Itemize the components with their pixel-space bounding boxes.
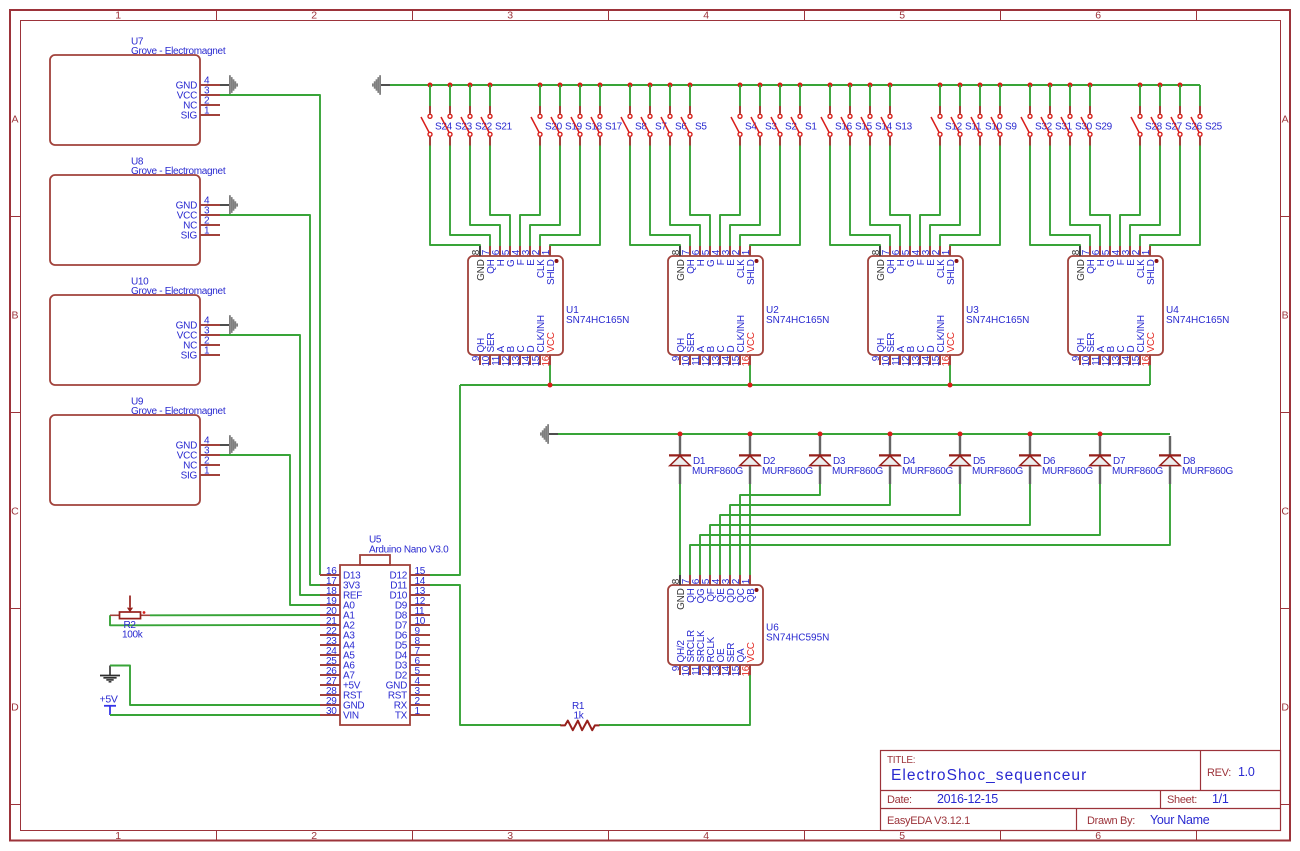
wire S30 to U4 input (1070, 146, 1100, 247)
svg-text:1: 1 (941, 249, 952, 255)
junction switch bus at S5 (688, 83, 693, 88)
svg-text:SN74HC165N: SN74HC165N (566, 315, 629, 326)
junction switch bus at S7 (648, 83, 653, 88)
svg-text:Sheet:: Sheet: (1167, 794, 1197, 806)
svg-text:1: 1 (415, 706, 421, 717)
junction switch bus at S31 (1048, 83, 1053, 88)
junction switch bus at S27 (1158, 83, 1163, 88)
wire S18 to U1 input (540, 146, 580, 247)
svg-text:16: 16 (941, 355, 952, 366)
junction switch bus at S13 (888, 83, 893, 88)
junction diode bus at D6 (1028, 432, 1033, 437)
svg-text:Grove - Electromagnet: Grove - Electromagnet (131, 46, 226, 57)
svg-text:VCC: VCC (746, 642, 757, 662)
wire +5V to U5 pin30 VIN (110, 714, 320, 716)
switch S1 (791, 106, 817, 146)
wire D7 to U6 pin2 (700, 484, 1100, 575)
wire bus to S31 (1049, 85, 1051, 106)
svg-text:2: 2 (311, 9, 317, 21)
switch S18 (571, 106, 603, 146)
wire S9 to U3 input (950, 146, 1000, 247)
wire S20 to U1 input (520, 146, 540, 247)
title block (881, 751, 1281, 831)
junction switch bus at S1 (798, 83, 803, 88)
switch S11 (951, 106, 982, 146)
svg-text:+5V: +5V (100, 694, 118, 706)
svg-text:16: 16 (541, 355, 552, 366)
svg-text:1/1: 1/1 (1212, 792, 1229, 806)
ground flag at diode bus left end (540, 424, 558, 444)
diode D4 MURF860G (879, 436, 953, 484)
svg-text:1: 1 (115, 830, 121, 842)
switch S32 (1021, 106, 1053, 146)
wire S27 to U4 input (1130, 146, 1160, 247)
wire bus to S27 (1159, 85, 1161, 106)
svg-text:1.0: 1.0 (1238, 765, 1255, 779)
junction switch bus at S17 (598, 83, 603, 88)
ground flag at U7 GND pin (220, 75, 238, 95)
svg-text:4: 4 (703, 830, 709, 842)
junction switch bus at S29 (1088, 83, 1093, 88)
svg-text:SHLD: SHLD (546, 259, 557, 285)
wire D4 to U6 pin5 (730, 484, 890, 575)
svg-text:100k: 100k (122, 630, 144, 641)
junction switch bus at S4 (738, 83, 743, 88)
junction 5V rail (948, 383, 953, 388)
wire S14 to U3 input (870, 146, 900, 247)
junction switch bus at S8 (628, 83, 633, 88)
svg-text:TX: TX (395, 711, 408, 722)
wire S2 to U2 input (740, 146, 780, 247)
svg-text:16: 16 (741, 355, 752, 366)
svg-text:D: D (11, 701, 19, 713)
switch S13 (881, 106, 913, 146)
switch S31 (1041, 106, 1073, 146)
wire U4 VCC to 5V bus (1149, 365, 1151, 385)
svg-text:A: A (11, 113, 18, 125)
junction switch bus at S10 (978, 83, 983, 88)
svg-text:D: D (1281, 701, 1289, 713)
svg-text:6: 6 (1095, 9, 1101, 21)
junction switch bus at S14 (868, 83, 873, 88)
junction switch bus at S18 (578, 83, 583, 88)
svg-text:S5: S5 (695, 122, 707, 133)
wire 5V rail to U5 pin15 D12 (430, 385, 460, 575)
wire S28 to U4 input (1120, 146, 1140, 247)
junction switch bus at S3 (758, 83, 763, 88)
svg-text:SN74HC165N: SN74HC165N (1166, 315, 1229, 326)
wire S15 to U3 input (850, 146, 890, 247)
wire bus to S8 (629, 85, 631, 106)
wire S32 to U4 input (1030, 146, 1080, 247)
svg-text:4: 4 (703, 9, 709, 21)
junction diode bus at D7 (1098, 432, 1103, 437)
wire bus to S3 (759, 85, 761, 106)
switch S10 (971, 106, 1003, 146)
wire S5 to U2 input (690, 146, 710, 247)
ground symbol near U5 (100, 666, 120, 682)
junction diode bus at D2 (748, 432, 753, 437)
svg-text:5: 5 (899, 830, 905, 842)
svg-text:S29: S29 (1095, 122, 1113, 133)
wire diode GND bus (558, 433, 1170, 435)
wire R2 to U5 pin20 A1 (150, 614, 320, 616)
wire S25 to U4 pin1 (1150, 146, 1200, 247)
wire D3 to U6 pin6 (740, 484, 820, 575)
svg-text:S1: S1 (805, 122, 817, 133)
junction switch bus at S6 (668, 83, 673, 88)
switch S21 (481, 106, 513, 146)
svg-text:SN74HC595N: SN74HC595N (766, 633, 829, 644)
switch S25 (1191, 106, 1223, 146)
svg-text:VCC: VCC (1146, 332, 1157, 352)
wire D1 to U6 pin8 GND (679, 484, 681, 575)
switch S17 (591, 106, 623, 146)
svg-text:1: 1 (204, 346, 210, 357)
wire S23 to U1 input (450, 146, 490, 247)
wire U8 VCC to U5 pin17 3V3 (220, 215, 320, 585)
svg-text:ElectroShoc_sequenceur: ElectroShoc_sequenceur (891, 767, 1087, 784)
wire 5V rail across shift registers (460, 384, 1150, 386)
svg-text:Grove - Electromagnet: Grove - Electromagnet (131, 286, 226, 297)
ground flag at switch bus left end (372, 75, 390, 95)
wire bus to S22 (469, 85, 471, 106)
switch S16 (821, 106, 853, 146)
svg-text:S21: S21 (495, 122, 513, 133)
svg-text:MURF860G: MURF860G (832, 466, 883, 477)
svg-text:SIG: SIG (181, 231, 198, 242)
shift register U6 SN74HC595N (668, 575, 829, 677)
switch S19 (551, 106, 583, 146)
junction diode bus at D4 (888, 432, 893, 437)
switch S30 (1061, 106, 1093, 146)
svg-text:1: 1 (1141, 249, 1152, 255)
wire bus to S20 (539, 85, 541, 106)
svg-text:S13: S13 (895, 122, 913, 133)
junction 5V rail (548, 383, 553, 388)
+5V power flag (100, 694, 118, 716)
ground flag at U10 GND pin (220, 315, 238, 335)
svg-text:MURF860G: MURF860G (1182, 466, 1233, 477)
wire D5 to U6 pin4 (720, 484, 960, 575)
junction switch bus at S19 (558, 83, 563, 88)
svg-text:SIG: SIG (181, 351, 198, 362)
svg-text:MURF860G: MURF860G (692, 466, 743, 477)
svg-text:S9: S9 (1005, 122, 1017, 133)
junction switch bus at S15 (848, 83, 853, 88)
junction switch bus at S28 (1138, 83, 1143, 88)
switch S29 (1081, 106, 1113, 146)
svg-text:EasyEDA V3.12.1: EasyEDA V3.12.1 (887, 815, 970, 827)
wire U9 VCC to U5 pin19 A0 (220, 455, 320, 605)
wire S17 to U1 input (550, 146, 600, 247)
wire bus to S17 (599, 85, 601, 106)
wire bus to S12 (939, 85, 941, 106)
wire S29 to U4 input (1090, 146, 1110, 247)
wire bus to S1 (799, 85, 801, 106)
svg-text:SIG: SIG (181, 471, 198, 482)
svg-text:TITLE:: TITLE: (887, 755, 915, 766)
wire switch GND bus (390, 84, 1200, 86)
switch S6 (661, 106, 687, 146)
svg-text:MURF860G: MURF860G (902, 466, 953, 477)
switch S28 (1131, 106, 1163, 146)
switch S3 (751, 106, 777, 146)
svg-text:SN74HC165N: SN74HC165N (966, 315, 1029, 326)
junction switch bus at S24 (428, 83, 433, 88)
wire bus to S25 (1199, 85, 1201, 106)
svg-text:QB: QB (746, 588, 757, 602)
svg-text:1: 1 (741, 249, 752, 255)
svg-text:SHLD: SHLD (746, 259, 757, 285)
wire bus to S30 (1069, 85, 1071, 106)
diode D2 MURF860G (739, 436, 813, 484)
switch S4 (731, 106, 757, 146)
switch S5 (681, 106, 707, 146)
wire D8 to U6 pin1 (690, 484, 1170, 575)
svg-text:C: C (11, 505, 19, 517)
junction switch bus at S21 (488, 83, 493, 88)
wire S26 to U4 input (1140, 146, 1180, 247)
switch S15 (841, 106, 873, 146)
wire S22 to U1 input (470, 146, 500, 247)
svg-text:2: 2 (311, 830, 317, 842)
grove electromagnet module U8 (50, 157, 226, 266)
ground flag at U8 GND pin (220, 195, 238, 215)
switch S14 (861, 106, 893, 146)
wire S10 to U3 input (940, 146, 980, 247)
junction switch bus at S12 (938, 83, 943, 88)
wire bus to S32 (1029, 85, 1031, 106)
wire S7 to U2 input (650, 146, 690, 247)
wire S4 to U2 input (720, 146, 740, 247)
switch S2 (771, 106, 797, 146)
svg-text:1k: 1k (574, 711, 585, 722)
shift register U1 SN74HC165N (468, 246, 629, 367)
svg-text:MURF860G: MURF860G (1042, 466, 1093, 477)
wire S11 to U3 input (930, 146, 960, 247)
switch S26 (1171, 106, 1203, 146)
diode D7 MURF860G (1089, 436, 1163, 484)
wire S24 to U1 input (430, 146, 480, 247)
wire bus to S19 (559, 85, 561, 106)
wire bus to S24 (429, 85, 431, 106)
svg-text:30: 30 (326, 706, 337, 717)
svg-text:SHLD: SHLD (1146, 259, 1157, 285)
junction switch bus at S32 (1028, 83, 1033, 88)
switch S24 (421, 106, 453, 146)
arduino nano U5 (320, 535, 449, 726)
svg-text:S17: S17 (605, 122, 623, 133)
wire bus to S9 (999, 85, 1001, 106)
wire bus to S16 (829, 85, 831, 106)
wire bus to S10 (979, 85, 981, 106)
wire S21 to U1 input (490, 146, 510, 247)
wire bus to S4 (739, 85, 741, 106)
svg-text:REV:: REV: (1207, 767, 1231, 779)
junction switch bus at S9 (998, 83, 1003, 88)
switch S22 (461, 106, 493, 146)
svg-text:Arduino Nano V3.0: Arduino Nano V3.0 (369, 545, 449, 556)
wire S13 to U3 input (890, 146, 910, 247)
ground flag at U9 GND pin (220, 435, 238, 455)
switch S12 (931, 106, 963, 146)
wire bus to S11 (959, 85, 961, 106)
svg-text:6: 6 (1095, 830, 1101, 842)
wire U2 VCC to 5V bus (749, 365, 751, 385)
svg-text:Date:: Date: (887, 794, 912, 806)
junction diode bus at D1 (678, 432, 683, 437)
wire S3 to U2 input (730, 146, 760, 247)
svg-text:Your Name: Your Name (1150, 813, 1210, 827)
wire S31 to U4 input (1050, 146, 1090, 247)
svg-text:MURF860G: MURF860G (972, 466, 1023, 477)
shift register U4 SN74HC165N (1068, 246, 1229, 367)
junction switch bus at S30 (1068, 83, 1073, 88)
junction switch bus at S23 (448, 83, 453, 88)
svg-text:A: A (1282, 113, 1289, 125)
wire bus to S14 (869, 85, 871, 106)
junction 5V rail (748, 383, 753, 388)
diode D8 MURF860G (1159, 436, 1233, 484)
wire bus to S21 (489, 85, 491, 106)
wire bus to S13 (889, 85, 891, 106)
svg-text:5: 5 (899, 9, 905, 21)
wire S1 to U2 input (750, 146, 800, 247)
svg-text:1: 1 (741, 578, 752, 584)
junction switch bus at S2 (778, 83, 783, 88)
svg-text:VCC: VCC (746, 332, 757, 352)
switch S7 (641, 106, 667, 146)
svg-text:1: 1 (204, 226, 210, 237)
svg-text:C: C (1281, 505, 1289, 517)
svg-text:SHLD: SHLD (946, 259, 957, 285)
svg-text:Drawn By:: Drawn By: (1087, 815, 1135, 827)
svg-text:1: 1 (204, 466, 210, 477)
svg-text:VCC: VCC (946, 332, 957, 352)
wire bus to S29 (1089, 85, 1091, 106)
wire bus to S28 (1139, 85, 1141, 106)
wire D6 to U6 pin3 (710, 484, 1030, 575)
svg-text:B: B (11, 309, 18, 321)
svg-text:VIN: VIN (343, 711, 359, 722)
wire bus to S15 (849, 85, 851, 106)
junction switch bus at S22 (468, 83, 473, 88)
grove electromagnet module U7 (50, 37, 226, 146)
diode D6 MURF860G (1019, 436, 1093, 484)
diode D5 MURF860G (949, 436, 1023, 484)
diode D1 MURF860G (669, 436, 743, 484)
junction switch bus at S20 (538, 83, 543, 88)
wire S8 to U2 input (630, 146, 680, 247)
svg-text:16: 16 (741, 665, 752, 676)
switch S27 (1151, 106, 1183, 146)
svg-text:16: 16 (1141, 355, 1152, 366)
wire U10 VCC to U5 pin18 REF (220, 335, 320, 595)
svg-text:1: 1 (204, 106, 210, 117)
switch S20 (531, 106, 563, 146)
switch S23 (441, 106, 473, 146)
svg-text:Grove - Electromagnet: Grove - Electromagnet (131, 406, 226, 417)
wire U3 VCC to 5V bus (949, 365, 951, 385)
wire bus to S6 (669, 85, 671, 106)
wire R2 to U5 pin21 A2 (110, 615, 320, 625)
wire S12 to U3 input (920, 146, 940, 247)
svg-text:SN74HC165N: SN74HC165N (766, 315, 829, 326)
junction switch bus at S11 (958, 83, 963, 88)
wire D2 to U6 pin7 (749, 484, 751, 575)
wire U1 VCC to 5V bus (549, 365, 551, 385)
wire R1 to U6 VCC pin16 (599, 675, 750, 725)
svg-text:VCC: VCC (546, 332, 557, 352)
grove electromagnet module U9 (50, 397, 226, 506)
svg-text:B: B (1282, 309, 1289, 321)
wire S16 to U3 input (830, 146, 880, 247)
potentiometer R2 (110, 596, 150, 641)
svg-text:3: 3 (507, 830, 513, 842)
grove electromagnet module U10 (50, 277, 226, 386)
wire S19 to U1 input (530, 146, 560, 247)
svg-text:1: 1 (541, 249, 552, 255)
wire U7 VCC to U5 pin16 D13 (220, 95, 320, 575)
switch S8 (621, 106, 647, 146)
shift register U3 SN74HC165N (868, 246, 1029, 367)
wire bus to S2 (779, 85, 781, 106)
diode D3 MURF860G (809, 436, 883, 484)
wire bus to S18 (579, 85, 581, 106)
svg-text:3: 3 (507, 9, 513, 21)
svg-text:SIG: SIG (181, 111, 198, 122)
svg-text:MURF860G: MURF860G (1112, 466, 1163, 477)
shift register U2 SN74HC165N (668, 246, 829, 367)
svg-text:2016-12-15: 2016-12-15 (937, 792, 998, 806)
wire bus to S26 (1179, 85, 1181, 106)
switch S9 (991, 106, 1017, 146)
junction diode bus at D3 (818, 432, 823, 437)
junction switch bus at S26 (1178, 83, 1183, 88)
junction diode bus at D5 (958, 432, 963, 437)
wire S6 to U2 input (670, 146, 700, 247)
resistor R1 (560, 701, 599, 730)
wire bus to S7 (649, 85, 651, 106)
wire U5 pin14 D11 to R1 (430, 585, 561, 725)
svg-text:Grove - Electromagnet: Grove - Electromagnet (131, 166, 226, 177)
junction switch bus at S16 (828, 83, 833, 88)
wire bus to S5 (689, 85, 691, 106)
svg-text:S25: S25 (1205, 122, 1223, 133)
wire bus to S23 (449, 85, 451, 106)
wire ground to U5 pin29 GND (110, 666, 320, 706)
svg-text:1: 1 (115, 9, 121, 21)
svg-text:MURF860G: MURF860G (762, 466, 813, 477)
